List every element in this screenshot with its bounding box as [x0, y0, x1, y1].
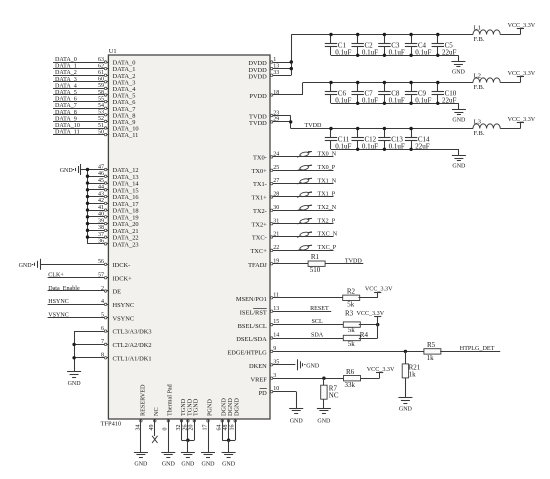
- pin 53 DATA_8 wire and net label: [53, 110, 135, 120]
- inductor L2 F.B. ferrite bead: [473, 73, 520, 92]
- svg-text:57: 57: [98, 273, 104, 279]
- svg-text:MSEN/PO1: MSEN/PO1: [236, 296, 267, 303]
- svg-text:25: 25: [273, 165, 279, 171]
- ground GND below R7: [317, 399, 331, 424]
- pin 33 DVDD wire: [248, 70, 291, 80]
- svg-text:1k: 1k: [427, 354, 435, 362]
- pin 0 Thermal Pad bottom stub: [163, 383, 174, 452]
- pin 49 NC bottom stub: [149, 407, 160, 436]
- svg-text:TX1_P: TX1_P: [318, 192, 336, 198]
- no-connect X at NC pin: [152, 436, 157, 443]
- pin 36 DATA_23 wire: [88, 239, 139, 249]
- svg-text:DSEL/SDA: DSEL/SDA: [236, 336, 267, 343]
- pin 30 TX2- wire with differential-pair marker and net TX2_N: [253, 205, 337, 215]
- pin 5 VSYNC wire: [48, 313, 135, 323]
- pin 17 PGND bottom stub: [202, 399, 213, 453]
- svg-text:TX0_N: TX0_N: [318, 152, 337, 158]
- pin 46 DATA_13 wire: [86, 171, 139, 181]
- wire bottom rail of bank 3: [331, 148, 459, 151]
- power VCC_3.3V shared by R3 R4: [357, 311, 385, 317]
- svg-text:64: 64: [217, 425, 223, 431]
- svg-text:GND: GND: [317, 418, 331, 424]
- power VCC_3.3V at bank 2: [508, 71, 536, 82]
- pin 25 TX0+ wire with differential-pair marker and net TX0_P: [251, 165, 335, 175]
- pin 20 TGND bottom stub: [189, 398, 200, 440]
- svg-text:VSYNC: VSYNC: [113, 315, 135, 322]
- svg-text:NC: NC: [153, 407, 160, 416]
- svg-text:HSYNC: HSYNC: [48, 299, 69, 305]
- svg-text:8: 8: [101, 353, 104, 359]
- pin 6 CTL3/A3/DK3 wire: [74, 326, 151, 336]
- svg-text:37: 37: [98, 232, 104, 238]
- svg-text:DATA_11: DATA_11: [113, 132, 139, 139]
- capacitor C14 22uF: [405, 127, 430, 151]
- pin 54 DATA_7 wire and net label: [53, 103, 136, 113]
- wire R2 to VCC: [359, 297, 378, 299]
- svg-text:2: 2: [101, 286, 104, 292]
- svg-text:GND: GND: [68, 381, 82, 387]
- wire R3 to VCC riser: [359, 323, 380, 326]
- svg-text:RESERVED: RESERVED: [139, 384, 146, 416]
- svg-text:F.B.: F.B.: [474, 130, 485, 137]
- wire R1 to TVDD label: [325, 258, 363, 264]
- svg-text:Data_Enable: Data_Enable: [48, 286, 80, 292]
- svg-text:43: 43: [98, 191, 104, 197]
- svg-text:60: 60: [98, 77, 104, 83]
- pin 2 DE wire: [48, 286, 122, 296]
- svg-text:TX0-: TX0-: [253, 155, 267, 162]
- capacitor C13 0.1uF: [378, 127, 405, 151]
- svg-text:21: 21: [273, 232, 279, 238]
- pin 44 DATA_15 wire: [86, 185, 139, 195]
- capacitor C5 22uF: [432, 33, 457, 57]
- svg-text:63: 63: [98, 57, 104, 63]
- capacitor C7 0.1uF: [352, 81, 379, 105]
- svg-text:TX0+: TX0+: [251, 168, 267, 175]
- svg-text:GND: GND: [19, 263, 33, 269]
- pin 31 TX2+ wire with differential-pair marker and net TX2_P: [251, 218, 335, 228]
- svg-text:10: 10: [273, 386, 279, 392]
- ground GND of bank 1: [451, 55, 465, 75]
- svg-text:R5: R5: [427, 341, 436, 349]
- svg-text:TXC_N: TXC_N: [318, 232, 338, 238]
- wire TVDD dropper to rail with junction: [289, 116, 292, 129]
- pin 22 TXC+ wire with differential-pair marker and net TXC_P: [250, 245, 336, 255]
- ground GND (rotated) for DATA_12..DATA_23 bus: [60, 164, 88, 175]
- svg-text:TXC_P: TXC_P: [318, 245, 337, 251]
- svg-text:58: 58: [98, 90, 104, 96]
- svg-text:TX2_N: TX2_N: [318, 205, 337, 211]
- pin 32 TGND bottom stub: [176, 398, 187, 440]
- svg-text:7: 7: [101, 339, 104, 345]
- svg-text:VCC_3.3V: VCC_3.3V: [508, 23, 536, 29]
- pin 57 IDCK+ wire: [48, 273, 133, 283]
- svg-text:61: 61: [98, 70, 104, 76]
- svg-text:TFADJ: TFADJ: [248, 262, 267, 269]
- svg-text:R3: R3: [345, 309, 354, 317]
- svg-text:CTL3/A3/DK3: CTL3/A3/DK3: [113, 329, 152, 336]
- svg-text:TX0_P: TX0_P: [318, 165, 336, 171]
- svg-text:EDGE/HTPLG: EDGE/HTPLG: [227, 350, 267, 357]
- wire PD to ground: [296, 392, 298, 409]
- pin 39 DATA_20 wire: [86, 218, 139, 228]
- svg-text:6: 6: [101, 326, 104, 332]
- svg-text:DE: DE: [113, 289, 122, 296]
- pin 60 DATA_3 wire and net label: [53, 77, 135, 87]
- svg-text:VCC_3.3V: VCC_3.3V: [357, 311, 385, 317]
- svg-text:13: 13: [273, 306, 279, 312]
- svg-text:DATA_8: DATA_8: [55, 110, 77, 116]
- pin 18 PVDD wire: [249, 90, 302, 100]
- pin 1 DVDD wire: [248, 57, 291, 67]
- resistor R4 5k: [343, 331, 368, 348]
- svg-text:GND: GND: [290, 418, 304, 424]
- svg-text:GND: GND: [162, 462, 176, 468]
- svg-text:SDA: SDA: [311, 333, 324, 339]
- svg-text:VCC_3.3V: VCC_3.3V: [508, 117, 536, 123]
- svg-text:44: 44: [98, 185, 104, 191]
- svg-text:DATA_3: DATA_3: [55, 77, 77, 83]
- pin 21 TXC- wire with differential-pair marker and net TXC_N: [252, 231, 338, 241]
- svg-text:4: 4: [101, 299, 104, 305]
- svg-text:40: 40: [98, 212, 104, 218]
- pin 13 ISEL/RST wire with net RESET: [240, 306, 331, 317]
- pin 16 DGND bottom stub: [230, 398, 241, 441]
- svg-text:0: 0: [163, 428, 169, 431]
- svg-text:VREF: VREF: [250, 376, 267, 383]
- svg-text:31: 31: [273, 218, 279, 224]
- svg-text:HTPLG_DET: HTPLG_DET: [460, 346, 495, 352]
- pin 56 IDCK- wire: [40, 259, 130, 269]
- pin 19 TFADJ wire: [248, 258, 308, 269]
- pin 52 DATA_9 wire and net label: [53, 116, 135, 126]
- svg-text:CTL1/A1/DK1: CTL1/A1/DK1: [113, 355, 152, 362]
- svg-text:TXC-: TXC-: [252, 235, 267, 242]
- pin 10 PD wire: [259, 386, 297, 397]
- svg-text:16: 16: [230, 425, 236, 431]
- svg-text:GND: GND: [222, 462, 236, 468]
- svg-text:NC: NC: [329, 391, 339, 399]
- svg-text:VSYNC: VSYNC: [48, 313, 69, 319]
- wire vertical grounding bus for DATA_12..DATA_23: [87, 170, 89, 244]
- svg-text:13: 13: [273, 63, 279, 69]
- pin 24 TX0- wire with differential-pair marker and net TX0_N: [253, 151, 337, 161]
- svg-text:3: 3: [273, 373, 276, 379]
- pin 15 BSEL/SCL wire with net SCL: [238, 319, 345, 330]
- svg-text:27: 27: [273, 178, 279, 184]
- wire bottom rail of bank 2: [331, 102, 459, 105]
- pin 63 DATA_0 wire and net label: [53, 57, 135, 67]
- pin 37 DATA_22 wire: [86, 232, 139, 242]
- svg-text:5k: 5k: [348, 340, 356, 348]
- svg-text:TXC+: TXC+: [250, 248, 267, 255]
- svg-text:41: 41: [98, 205, 104, 211]
- svg-text:R6: R6: [346, 368, 355, 376]
- svg-text:GND: GND: [202, 462, 216, 468]
- ground GND bottom at x=208.0: [201, 453, 215, 468]
- power VCC_3.3V at bank 3: [508, 117, 536, 128]
- resistor R7 NC pulldown: [321, 378, 339, 399]
- svg-text:54: 54: [98, 103, 104, 109]
- pin 28 TX1+ wire with differential-pair marker and net TX1_P: [251, 191, 335, 201]
- svg-text:DATA_0: DATA_0: [55, 57, 77, 63]
- pin 27 TX1- wire with differential-pair marker and net TX1_N: [253, 178, 337, 188]
- svg-text:ISEL/RST: ISEL/RST: [240, 309, 267, 316]
- svg-text:35: 35: [273, 359, 279, 365]
- svg-text:17: 17: [202, 425, 208, 431]
- svg-text:GND: GND: [399, 406, 413, 412]
- wire R5 to HTPLG_DET: [440, 346, 500, 352]
- wire bottom rail of bank 1: [331, 54, 458, 57]
- svg-text:59: 59: [98, 83, 104, 89]
- svg-text:L3: L3: [474, 119, 482, 126]
- svg-text:29: 29: [273, 117, 279, 123]
- pin 35 DKEN wire: [249, 359, 295, 370]
- wire DGND tie: [222, 439, 235, 453]
- svg-text:1: 1: [273, 57, 276, 63]
- svg-text:TGND: TGND: [193, 398, 200, 416]
- svg-text:TVDD: TVDD: [249, 120, 267, 127]
- svg-text:VCC_3.3V: VCC_3.3V: [367, 367, 395, 373]
- svg-text:DATA_2: DATA_2: [55, 70, 77, 76]
- svg-text:50: 50: [98, 129, 104, 135]
- svg-text:47: 47: [98, 164, 104, 170]
- pin 58 DATA_5 wire and net label: [53, 90, 135, 100]
- ground GND (rotated) at DKEN: [298, 359, 320, 370]
- ground GND bottom at x=168.3: [161, 453, 175, 468]
- svg-text:22: 22: [273, 245, 279, 251]
- pin 43 DATA_16 wire: [86, 191, 139, 201]
- svg-text:56: 56: [98, 259, 104, 265]
- svg-text:L2: L2: [474, 73, 481, 80]
- svg-text:TX2-: TX2-: [253, 208, 267, 215]
- wire PVDD riser: [302, 83, 304, 96]
- pin 38 DATA_21 wire: [86, 225, 139, 235]
- svg-text:BSEL/SCL: BSEL/SCL: [238, 323, 267, 330]
- svg-text:DATA_7: DATA_7: [55, 103, 77, 109]
- svg-text:18: 18: [273, 90, 279, 96]
- svg-text:TX1-: TX1-: [253, 181, 267, 188]
- resistor R2 5k: [343, 287, 360, 308]
- svg-text:TX2_P: TX2_P: [318, 218, 336, 224]
- resistor R21 1k pulldown: [402, 351, 421, 378]
- svg-text:TFP410: TFP410: [101, 421, 122, 428]
- pin 26 TGND bottom stub: [182, 398, 193, 440]
- svg-text:GND: GND: [60, 168, 74, 174]
- pin 62 DATA_1 wire and net label: [53, 63, 135, 73]
- svg-text:TVDD: TVDD: [345, 258, 363, 264]
- wire DVDD riser to decoupling rail: [290, 35, 293, 76]
- svg-text:F.B.: F.B.: [474, 84, 485, 91]
- pin 34 RESERVED bottom stub: [135, 384, 146, 452]
- wire R4 up to VCC riser: [359, 316, 378, 338]
- svg-text:45: 45: [98, 178, 104, 184]
- capacitor C1 0.1uF: [325, 33, 352, 57]
- pin 40 DATA_19 wire: [86, 212, 139, 222]
- svg-text:IDCK-: IDCK-: [113, 262, 131, 269]
- svg-text:R1: R1: [311, 253, 320, 261]
- wire CTL1-CTL3 ground tie: [72, 331, 75, 372]
- node TVDD net label on rail: [305, 123, 323, 129]
- pin 13 DVDD wire: [248, 63, 291, 73]
- ground GND bottom at x=187.9: [181, 453, 195, 468]
- IC U1 TFP410 chip body: [101, 48, 270, 427]
- svg-text:15: 15: [273, 319, 279, 325]
- svg-text:DATA_1: DATA_1: [55, 64, 77, 70]
- svg-text:38: 38: [98, 225, 104, 231]
- ground GND below CTL pins: [67, 372, 81, 388]
- svg-text:GND: GND: [452, 118, 466, 124]
- inductor L1 F.B. ferrite bead: [473, 25, 520, 43]
- pin 51 DATA_10 wire and net label: [53, 123, 139, 133]
- pin 11 MSEN/PO1 wire: [236, 292, 344, 303]
- resistor R6 33k: [344, 368, 361, 389]
- capacitor C8 0.1uF: [378, 81, 405, 105]
- pin 64 DGND bottom stub: [217, 398, 228, 441]
- pin 8 CTL1/A1/DK1 wire: [74, 353, 151, 363]
- power VCC_3.3V at R2: [365, 287, 393, 298]
- svg-text:5k: 5k: [347, 301, 355, 309]
- power VCC_3.3V at R6: [367, 367, 395, 378]
- svg-text:RESET: RESET: [310, 306, 329, 312]
- svg-text:14: 14: [273, 333, 279, 339]
- svg-text:GND: GND: [181, 462, 195, 468]
- pin 59 DATA_4 wire and net label: [53, 83, 136, 93]
- svg-text:51: 51: [98, 123, 104, 129]
- svg-text:DATA_5: DATA_5: [55, 90, 77, 96]
- svg-text:5k: 5k: [348, 326, 356, 334]
- ground GND bottom at x=140.9: [134, 453, 148, 468]
- svg-text:24: 24: [273, 152, 279, 158]
- ground GND of bank 2: [452, 103, 466, 123]
- svg-text:Thermal Pad: Thermal Pad: [167, 383, 174, 416]
- svg-text:DGND: DGND: [234, 398, 241, 416]
- svg-text:F.B.: F.B.: [474, 36, 485, 43]
- pin 41 DATA_18 wire: [86, 205, 139, 215]
- pin 42 DATA_17 wire: [86, 198, 140, 208]
- svg-text:GND: GND: [452, 164, 466, 170]
- pin 4 HSYNC wire: [48, 299, 135, 309]
- capacitor C4 0.1uF: [405, 33, 432, 57]
- svg-text:TX2+: TX2+: [251, 221, 267, 228]
- ground GND below R21: [398, 378, 412, 413]
- svg-text:CTL2/A2/DK2: CTL2/A2/DK2: [113, 342, 152, 349]
- pin 3 VREF wire: [250, 373, 343, 384]
- svg-text:33: 33: [273, 70, 279, 76]
- ground GND below PD: [289, 409, 303, 425]
- svg-text:DATA_11: DATA_11: [55, 130, 80, 136]
- resistor R1 510: [308, 253, 325, 274]
- svg-text:DATA_9: DATA_9: [55, 116, 77, 122]
- capacitor C10 22uF: [432, 81, 457, 105]
- svg-text:TX1+: TX1+: [251, 195, 267, 202]
- ground GND bottom at x=228.6: [222, 453, 236, 468]
- svg-text:510: 510: [310, 266, 321, 274]
- capacitor C3 0.1uF: [378, 33, 405, 57]
- svg-text:53: 53: [98, 110, 104, 116]
- wire TGND tie: [182, 439, 195, 453]
- capacitor C12 0.1uF: [352, 127, 379, 151]
- ground GND (rotated) at IDCK- pin 56: [19, 259, 41, 270]
- svg-text:DATA_4: DATA_4: [55, 83, 77, 89]
- svg-text:28: 28: [273, 192, 279, 198]
- svg-text:PD: PD: [259, 390, 268, 397]
- resistor R3 5k: [343, 309, 360, 334]
- pin 55 DATA_6 wire and net label: [53, 96, 135, 106]
- svg-text:DKEN: DKEN: [249, 363, 267, 370]
- pin 47 DATA_12 wire: [86, 164, 139, 174]
- svg-text:11: 11: [273, 292, 279, 298]
- svg-text:L1: L1: [474, 25, 481, 32]
- svg-text:55: 55: [98, 96, 104, 102]
- svg-text:62: 62: [98, 63, 104, 69]
- svg-text:VCC_3.3V: VCC_3.3V: [365, 287, 393, 293]
- svg-text:36: 36: [98, 239, 104, 245]
- pin 23 TVDD wire: [249, 110, 291, 120]
- svg-text:5: 5: [101, 313, 104, 319]
- svg-text:U1: U1: [109, 48, 117, 55]
- svg-text:52: 52: [98, 116, 104, 122]
- capacitor C9 0.1uF: [405, 81, 432, 105]
- pin 9 EDGE/HTPLG wire: [227, 346, 424, 357]
- svg-text:33k: 33k: [345, 381, 356, 389]
- svg-text:DATA_23: DATA_23: [113, 241, 139, 248]
- wire decoupling rail 2: [303, 82, 473, 84]
- capacitor C11 0.1uF: [325, 127, 352, 151]
- resistor R5 1k: [424, 341, 441, 362]
- pin 45 DATA_14 wire: [86, 178, 140, 188]
- svg-text:1k: 1k: [409, 370, 417, 378]
- svg-text:23: 23: [273, 110, 279, 116]
- svg-text:VCC_3.3V: VCC_3.3V: [508, 71, 536, 77]
- svg-text:CLK+: CLK+: [48, 273, 64, 279]
- svg-text:PGND: PGND: [206, 399, 213, 416]
- svg-text:30: 30: [273, 205, 279, 211]
- svg-text:GND: GND: [306, 363, 320, 369]
- svg-text:GND: GND: [452, 70, 466, 76]
- wire R6 to VCC: [361, 378, 380, 380]
- svg-text:39: 39: [98, 218, 104, 224]
- svg-text:SCL: SCL: [312, 319, 323, 325]
- svg-text:TX1_N: TX1_N: [318, 178, 337, 184]
- svg-text:R2: R2: [347, 287, 356, 295]
- svg-text:DVDD: DVDD: [248, 73, 267, 80]
- wire decoupling rail 1: [291, 34, 473, 36]
- power VCC_3.3V at bank 1: [508, 23, 536, 34]
- svg-text:42: 42: [98, 198, 104, 204]
- wire decoupling rail 3: [291, 128, 473, 130]
- ground GND of bank 3: [452, 149, 466, 169]
- pin 29 TVDD wire: [249, 117, 291, 127]
- svg-text:9: 9: [273, 346, 276, 352]
- capacitor C2 0.1uF: [352, 33, 379, 57]
- svg-text:20: 20: [189, 425, 195, 431]
- svg-text:IDCK+: IDCK+: [113, 275, 133, 282]
- pin 61 DATA_2 wire and net label: [53, 70, 135, 80]
- svg-text:GND: GND: [134, 462, 148, 468]
- svg-text:46: 46: [98, 171, 104, 177]
- pin 48 DGND bottom stub: [223, 398, 234, 441]
- svg-text:DATA_10: DATA_10: [55, 123, 80, 129]
- svg-text:DATA_6: DATA_6: [55, 97, 77, 103]
- pin 50 DATA_11 wire and net label: [53, 129, 138, 139]
- pin 7 CTL2/A2/DK2 wire: [74, 339, 151, 349]
- svg-text:HSYNC: HSYNC: [113, 302, 135, 309]
- svg-text:PVDD: PVDD: [249, 93, 267, 100]
- capacitor C6 0.1uF: [325, 81, 352, 105]
- pin 14 DSEL/SDA wire with net SDA: [236, 333, 344, 344]
- inductor L3 F.B. ferrite bead: [473, 119, 520, 138]
